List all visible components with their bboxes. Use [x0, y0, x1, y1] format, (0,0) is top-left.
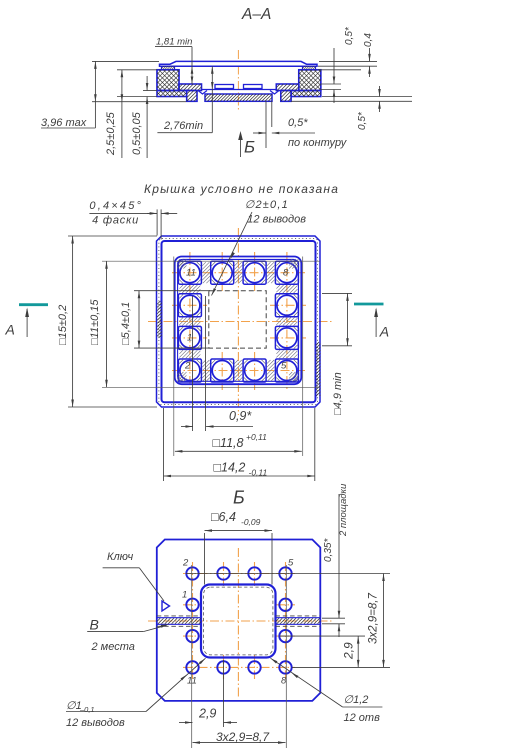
section lid (cover) — [160, 61, 318, 66]
bottom view key mark — [162, 601, 170, 611]
svg-text:+0,11: +0,11 — [246, 432, 267, 442]
dimension 0,5±0,05 — [131, 76, 148, 158]
svg-text:3,96 max: 3,96 max — [41, 117, 87, 129]
section mark A left — [5, 305, 49, 338]
section bond shelf left — [179, 84, 202, 91]
dimension □6,4 -0,09 — [205, 510, 273, 532]
svg-text:□6,4: □6,4 — [211, 510, 236, 524]
dimension 1,81 min — [155, 37, 193, 85]
section flange right — [291, 91, 321, 97]
svg-text:А–А: А–А — [241, 6, 271, 23]
section seal ring left — [162, 66, 175, 70]
top view pin number 8 — [283, 268, 289, 279]
svg-text:2,9: 2,9 — [198, 707, 216, 721]
top view pad corner hatch — [179, 262, 297, 381]
svg-text:1,81 min: 1,81 min — [156, 37, 192, 48]
dimension 0,5* standoff — [357, 86, 381, 130]
ext lines 11,8 — [174, 257, 303, 457]
svg-text:5: 5 — [288, 558, 294, 569]
svg-text:2 площадки: 2 площадки — [338, 483, 349, 537]
bottom view groove left segment — [157, 616, 201, 626]
bottom view centerlines — [148, 548, 332, 697]
leader ∅1,2 12 otv — [271, 658, 383, 724]
ext line row3 right — [280, 635, 365, 637]
note krышка — [144, 182, 339, 196]
svg-text:□4,9 min: □4,9 min — [332, 372, 344, 415]
svg-text:2,5±0,25: 2,5±0,25 — [105, 111, 117, 156]
svg-text:0,4×45°: 0,4×45° — [89, 200, 143, 212]
svg-text:по контуру: по контуру — [288, 137, 348, 149]
section lead right — [281, 91, 291, 102]
ext line flange top left — [143, 90, 157, 92]
top view inter-pad hatch — [179, 262, 297, 381]
top view pin number 2 — [184, 361, 191, 372]
svg-text:∅1,2: ∅1,2 — [344, 694, 369, 706]
svg-text:∅2±0,1: ∅2±0,1 — [245, 199, 289, 211]
ext lines 14,2 — [164, 408, 315, 481]
ext lines 6,4 — [205, 533, 273, 585]
bottom view pin number 5 — [288, 558, 294, 569]
ext line wall top left — [117, 69, 157, 71]
svg-text:0,35*: 0,35* — [323, 538, 334, 562]
svg-text:11: 11 — [186, 268, 196, 279]
ext line lid top right — [319, 60, 377, 62]
svg-text:2 места: 2 места — [91, 641, 135, 653]
dimension 0,9* — [181, 409, 253, 428]
dimension 0,4x45 4 faski — [89, 200, 177, 240]
svg-text:3x2,9=8,7: 3x2,9=8,7 — [368, 593, 380, 644]
ext line shelf top right — [321, 83, 341, 85]
leader via diameter ∅2±0,1 12 vyvodov — [212, 199, 307, 296]
svg-text:2,76min: 2,76min — [163, 120, 203, 132]
svg-text:0,5*: 0,5* — [357, 111, 368, 130]
svg-text:□11±0,15: □11±0,15 — [89, 299, 101, 345]
dimension □11±0,15 — [89, 261, 108, 387]
dimension 2,5±0,25 — [105, 70, 123, 158]
section flange left — [157, 91, 187, 97]
ext line row4 right — [292, 666, 390, 668]
svg-text:-0,11: -0,11 — [249, 468, 268, 478]
dimension □15±0,2 — [57, 236, 74, 407]
section bond shelf right — [276, 84, 299, 91]
svg-text:0,5*: 0,5* — [344, 26, 355, 45]
top view edge hatch left — [157, 301, 162, 338]
dimension □4,9 min — [332, 293, 349, 415]
svg-text:12 отв: 12 отв — [344, 712, 381, 724]
svg-text:0,5*: 0,5* — [288, 117, 308, 129]
top view die attach area (dashed) — [209, 291, 266, 348]
top view edge hatch right — [316, 342, 321, 396]
ext line lid bottom right — [318, 65, 377, 67]
bottom view pin number 11 — [187, 676, 197, 687]
dimension 0,5* po konturu — [253, 101, 348, 149]
dimension 2,9 bottom — [179, 707, 237, 724]
svg-text:5: 5 — [281, 361, 287, 372]
ext line wall top right — [318, 69, 361, 71]
dimension □5,4±0,1 — [120, 291, 140, 348]
bottom view pin number 2 — [182, 558, 189, 569]
svg-text:□5,4±0,1: □5,4±0,1 — [120, 302, 132, 345]
dimension □11,8 +0,11 — [175, 432, 302, 453]
ext lines for 11 — [102, 261, 320, 387]
dimension 2,76 min — [157, 66, 213, 133]
bottom view pin number 1 — [182, 590, 187, 601]
section seal ring right — [303, 66, 316, 70]
svg-text:–0,1: –0,1 — [79, 705, 95, 714]
section bottom metallization strip — [205, 94, 272, 101]
svg-text:4 фаски: 4 фаски — [92, 215, 139, 227]
svg-text:0,4: 0,4 — [363, 33, 374, 47]
section mark A right — [354, 304, 389, 340]
dimension 3,96 max — [41, 61, 97, 129]
svg-text:А: А — [5, 322, 15, 338]
section centerline — [237, 50, 239, 110]
section notch right — [270, 91, 279, 95]
top view pin number 1 — [187, 333, 192, 344]
ext lines 2,9 bottom — [192, 565, 224, 748]
svg-text:12 выводов: 12 выводов — [247, 214, 306, 226]
label V 2 mesta — [87, 617, 169, 654]
dimension 3x2,9=8,7 bottom — [193, 730, 286, 744]
svg-text:Ключ: Ключ — [107, 551, 133, 563]
top view centerlines — [148, 228, 332, 415]
ext line floor right — [321, 89, 341, 91]
label Kluch — [103, 551, 164, 601]
svg-text:□14,2: □14,2 — [214, 461, 246, 475]
svg-text:3x2,9=8,7: 3x2,9=8,7 — [216, 730, 270, 744]
ext line flange bottom left — [117, 96, 157, 98]
svg-text:-0,09: -0,09 — [241, 517, 261, 527]
dimension 3x2,9=8,7 right — [368, 574, 385, 668]
ext line seating right — [291, 100, 412, 102]
ext line lid top left — [92, 60, 159, 62]
svg-text:1: 1 — [187, 333, 192, 344]
bottom view holes (12) — [186, 567, 291, 673]
svg-text:В: В — [90, 617, 99, 633]
ext lines for 15 — [68, 236, 157, 407]
title B — [233, 488, 245, 508]
bottom view package outline — [157, 540, 320, 701]
top view pin number 5 — [281, 361, 287, 372]
svg-text:2: 2 — [182, 558, 189, 569]
dimension □14,2 -0,11 — [164, 461, 315, 478]
bottom view central pad outline — [201, 585, 276, 658]
svg-text:1: 1 — [182, 590, 187, 601]
bottom view pin number 8 — [281, 676, 287, 687]
svg-text:2: 2 — [184, 361, 191, 372]
section die pad left — [215, 85, 234, 89]
svg-text:□15±0,2: □15±0,2 — [57, 305, 69, 345]
ext lines for 4,9 — [322, 293, 352, 345]
ext line flange bottom right — [322, 96, 412, 98]
top view ring corner hatch — [177, 259, 299, 382]
ext lines for 5,4 — [134, 291, 210, 348]
svg-text:□11,8: □11,8 — [213, 436, 244, 450]
ext line bottom left — [92, 101, 186, 103]
section lead left — [187, 91, 197, 102]
view direction arrow B — [238, 131, 255, 157]
dimension 0,35* 2 ploshchadki — [323, 483, 349, 637]
ext lines 3x2,9 bottom — [285, 565, 287, 748]
ext lines groove right — [322, 618, 345, 624]
svg-text:0,9*: 0,9* — [229, 409, 252, 423]
dimension 2,9 right — [342, 636, 360, 667]
title section A-A — [241, 6, 271, 23]
section cavity floor — [202, 89, 276, 91]
svg-text:Б: Б — [233, 488, 245, 508]
top view via pads (12) — [178, 261, 298, 382]
ext line row1 right — [186, 573, 390, 575]
svg-text:12 выводов: 12 выводов — [66, 717, 125, 729]
svg-text:Крышка условно не показана: Крышка условно не показана — [144, 182, 339, 196]
dimension 0,5* shelf step — [333, 26, 355, 103]
leader ∅1 -0,1 12 vyvodov — [66, 658, 206, 729]
svg-text:Б: Б — [244, 138, 255, 157]
top view package outline (lid + body) — [157, 236, 321, 407]
ext lines 0,9 — [193, 296, 206, 431]
svg-text:2,9: 2,9 — [342, 642, 356, 660]
section ceramic wall right — [299, 70, 321, 91]
top view pin number 11 — [186, 268, 196, 279]
section ceramic wall left — [157, 70, 179, 91]
section die pad right — [244, 85, 263, 89]
svg-text:8: 8 — [283, 268, 289, 279]
dimension 0,4 — [363, 33, 374, 77]
top view cavity outline — [175, 257, 302, 385]
bottom view groove right segment — [276, 616, 321, 626]
svg-text:0,5±0,05: 0,5±0,05 — [131, 111, 143, 155]
section notch left — [198, 91, 207, 95]
svg-text:А: А — [379, 324, 389, 340]
